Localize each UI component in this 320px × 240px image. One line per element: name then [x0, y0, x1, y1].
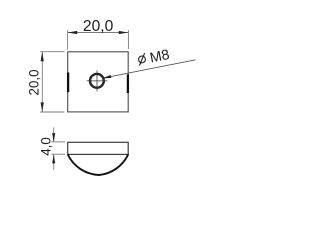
- top view right edge thick mark: [127, 74, 129, 93]
- diameter symbol slash: [137, 53, 147, 65]
- hole horizontal centerline: [87, 80, 108, 82]
- left dimension 20,0 : bottom extension line: [40, 111, 64, 113]
- hole vertical centerline: [96, 70, 98, 91]
- leader arrow: [102, 75, 111, 78]
- top view square outline: [68, 52, 129, 112]
- side view rectangle outline: [68, 142, 129, 154]
- diameter symbol circle: [138, 55, 146, 63]
- left dimension 20,0 : top arrow: [41, 52, 44, 62]
- threaded hole outer thread circle: [89, 73, 104, 88]
- leader line to M8 label: [103, 60, 196, 78]
- height dimension 4,0 : top extension line: [51, 141, 65, 143]
- top dimension 20,0 : left extension line: [67, 30, 69, 49]
- svg-text:20,0: 20,0: [83, 18, 114, 35]
- threaded hole inner circle: [91, 75, 104, 88]
- label diameter M8: [137, 47, 171, 69]
- svg-text:20,0: 20,0: [26, 69, 41, 95]
- left dimension 20,0 : bottom arrow: [41, 102, 44, 112]
- svg-text:4,0: 4,0: [38, 137, 53, 156]
- left dimension 20,0 : top extension line: [40, 51, 64, 53]
- top view left edge thick mark: [67, 73, 69, 93]
- left dimension 20,0 : dimension line: [41, 52, 43, 112]
- top dimension 20,0 : left arrow: [68, 31, 78, 34]
- side view curved underside: [68, 154, 129, 175]
- height dimension 4,0 : upper arrow pointing down: [52, 133, 55, 142]
- top dimension 20,0 : right extension line: [127, 30, 129, 49]
- top dimension 20,0 : right arrow: [119, 31, 129, 34]
- height dimension 4,0 : lower arrow pointing up: [52, 154, 55, 163]
- height dimension 4,0 : bottom extension line: [51, 153, 65, 155]
- height dimension 4,0 : dimension line lower part: [53, 154, 55, 169]
- height dimension 4,0 : dimension line upper part: [53, 127, 55, 141]
- top dimension 20,0 : dimension line: [68, 32, 128, 34]
